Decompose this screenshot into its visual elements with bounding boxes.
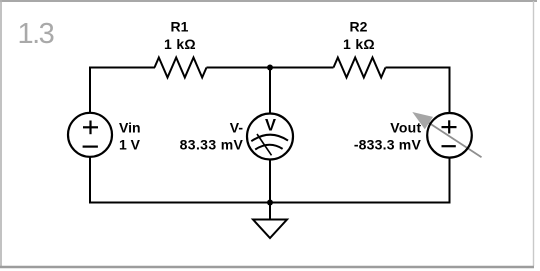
wire R1 to node A — [207, 67, 271, 69]
svg-text:R1: R1 — [171, 19, 189, 35]
svg-text:Vout: Vout — [390, 120, 421, 136]
svg-text:V-: V- — [230, 119, 244, 135]
wire bottom rail left — [89, 202, 270, 204]
wire bottom rail right — [270, 202, 451, 204]
voltage source Vout — [423, 113, 482, 158]
node A junction dot — [267, 65, 273, 71]
resistor R1 — [155, 58, 207, 78]
value 1 V — [119, 137, 141, 153]
svg-text:-833.3 mV: -833.3 mV — [354, 137, 422, 153]
value 83.33 mV — [180, 136, 244, 152]
resistor R1 value 1 kΩ — [164, 36, 196, 52]
sheet label 1.3 — [18, 18, 54, 50]
voltmeter U1 — [247, 114, 293, 160]
frame — [0, 0, 537, 2]
svg-text:1.3: 1.3 — [18, 18, 54, 50]
label V- — [230, 119, 244, 135]
variable-source arrow head (gray) — [412, 112, 433, 129]
resistor R2 value 1 kΩ — [343, 36, 375, 52]
svg-text:1 kΩ: 1 kΩ — [343, 36, 375, 52]
resistor R2 label — [350, 19, 368, 35]
junction dot at ground node — [267, 200, 273, 206]
svg-text:Vin: Vin — [119, 120, 141, 136]
wire right vertical lower — [449, 158, 451, 204]
wire left vertical lower — [89, 157, 91, 204]
resistor R1 label — [171, 19, 189, 35]
resistor R2 — [334, 58, 386, 78]
label Vin — [119, 120, 141, 136]
wire right vertical upper — [449, 67, 451, 114]
svg-text:83.33 mV: 83.33 mV — [180, 136, 244, 152]
wire top-left horizontal — [89, 67, 155, 69]
wire left vertical upper — [89, 67, 91, 114]
svg-text:1 kΩ: 1 kΩ — [164, 36, 196, 52]
ground — [253, 203, 287, 239]
voltage source Vin — [68, 113, 112, 157]
svg-text:V: V — [265, 116, 276, 134]
label Vout — [390, 120, 421, 136]
value -833.3 mV — [354, 137, 422, 153]
wire node A to voltmeter — [269, 68, 271, 115]
wire R2 to top-right corner — [386, 67, 451, 69]
svg-text:R2: R2 — [350, 19, 368, 35]
wire voltmeter to ground node — [269, 159, 271, 203]
svg-text:1 V: 1 V — [119, 137, 141, 153]
wire node A to R2 — [270, 67, 334, 69]
